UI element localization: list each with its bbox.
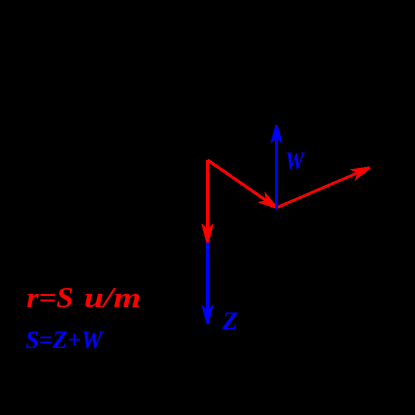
red diagonal arrow B to C xyxy=(277,168,370,208)
svg-text:u/m: u/m xyxy=(84,282,141,314)
vector W (blue, upward from B) xyxy=(275,125,278,209)
vector Z (blue, downward, under red segment) xyxy=(206,161,209,324)
svg-text:W: W xyxy=(285,148,306,175)
svg-text:r=S: r=S xyxy=(27,282,74,314)
red vertical arrow (A downward) xyxy=(206,160,209,243)
red diagonal arrow A to B xyxy=(208,160,278,208)
svg-text:Z: Z xyxy=(222,308,238,335)
svg-text:S=Z+W: S=Z+W xyxy=(26,327,105,354)
